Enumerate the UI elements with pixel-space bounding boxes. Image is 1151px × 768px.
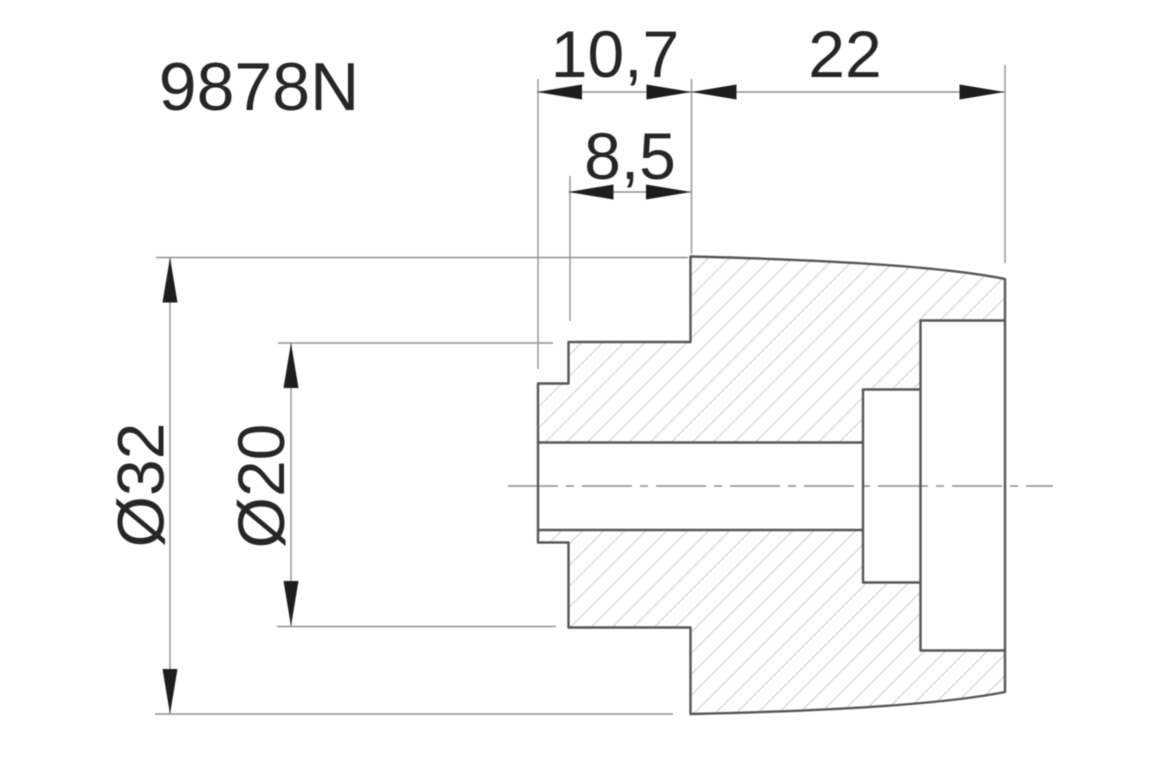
O20 extension top <box>278 342 553 344</box>
dim line 8,5 <box>569 191 692 193</box>
extension line 10,7 left <box>537 79 539 369</box>
centerline <box>508 485 1053 487</box>
O32 extension top <box>156 257 688 259</box>
bore opening rim on left face <box>537 443 539 531</box>
bore rim at counterbore bottom <box>862 443 864 531</box>
dim line 22 <box>692 91 1005 93</box>
extension line 8,5 left <box>569 176 571 321</box>
large counterbore rim on right face <box>1004 321 1006 651</box>
O20 arrows <box>284 343 299 388</box>
middle counterbore rim <box>919 390 921 583</box>
extension line shared at 691.5 <box>691 79 693 254</box>
O32 arrows <box>163 258 178 303</box>
arrows 8,5 <box>569 185 614 200</box>
O32 extension bottom <box>155 713 673 715</box>
dim line 10,7 <box>537 91 692 93</box>
extension line 22 right <box>1004 65 1006 263</box>
O20 dim line <box>290 343 292 626</box>
svg-text:10,7: 10,7 <box>551 17 679 91</box>
arrows 22 <box>692 85 737 100</box>
O20 extension bottom <box>277 626 556 628</box>
svg-text:8,5: 8,5 <box>584 119 676 193</box>
section upper half (hatched) <box>538 257 1005 443</box>
O32 dim line <box>169 258 171 714</box>
svg-text:22: 22 <box>808 17 881 91</box>
svg-text:Ø20: Ø20 <box>224 424 298 549</box>
svg-text:Ø32: Ø32 <box>104 423 178 548</box>
section lower half (hatched) <box>538 530 1005 714</box>
svg-text:9878N: 9878N <box>159 49 359 125</box>
arrows 10,7 <box>537 85 582 100</box>
